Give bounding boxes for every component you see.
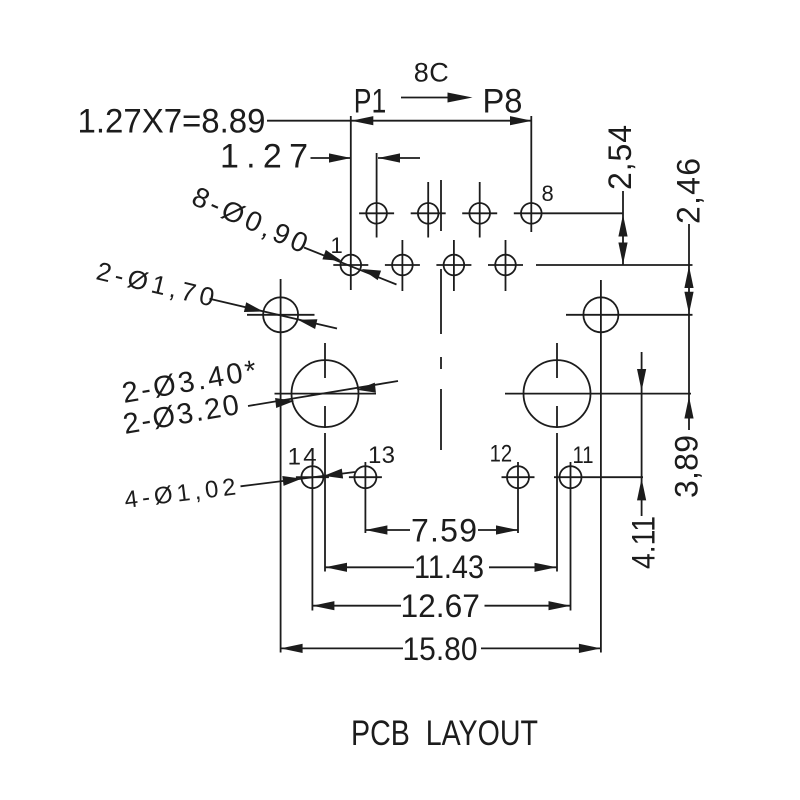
svg-text:12.67: 12.67 <box>401 588 480 624</box>
wire row2 centerline extension right <box>536 264 693 266</box>
boss hole left (Ø3.40/3.20) <box>275 343 377 572</box>
svg-text:11.43: 11.43 <box>414 549 484 585</box>
leader label 2-Ø1,70 <box>94 256 337 329</box>
pin hole P4 (Ø0.90) <box>411 182 446 238</box>
dimension 11.43 <box>325 549 557 585</box>
svg-text:8: 8 <box>542 181 554 206</box>
pin hole P8 (Ø0.90) <box>514 116 623 232</box>
svg-text:4.11: 4.11 <box>626 516 662 569</box>
svg-text:P1: P1 <box>354 82 387 120</box>
svg-text:8-Ø0,90: 8-Ø0,90 <box>188 181 313 259</box>
pin hole P2 (Ø0.90) <box>359 153 394 238</box>
svg-text:1.27X7=8.89: 1.27X7=8.89 <box>78 103 266 141</box>
svg-text:14: 14 <box>288 444 317 471</box>
svg-text:PCB LAYOUT: PCB LAYOUT <box>351 714 538 753</box>
dimension 2,54 <box>602 125 638 265</box>
svg-text:12: 12 <box>490 441 512 468</box>
leader label 2-Ø3,20 <box>121 381 398 441</box>
svg-text:1.27: 1.27 <box>220 138 308 176</box>
dimension 1.27X7=8.89 <box>78 103 533 141</box>
svg-text:7.59: 7.59 <box>411 513 477 549</box>
arrow P1 to P8 <box>401 93 473 103</box>
svg-text:4-Ø1,02: 4-Ø1,02 <box>123 474 237 514</box>
dimension 1.27 <box>220 138 420 176</box>
svg-text:8C: 8C <box>414 57 449 87</box>
pin hole P1 (Ø0.90) <box>333 116 368 290</box>
svg-text:2-Ø1,70: 2-Ø1,70 <box>94 256 218 313</box>
dimension 12.67 <box>312 588 570 624</box>
mounting hole right (Ø1.70) <box>566 280 693 653</box>
leader label 8-Ø0,90 <box>188 181 397 285</box>
svg-text:P8: P8 <box>483 82 523 120</box>
svg-text:11: 11 <box>573 442 594 469</box>
pin hole P5 (Ø0.90) <box>436 240 471 291</box>
svg-text:2,54: 2,54 <box>602 125 638 190</box>
boss hole right (Ø3.40/3.20) <box>505 343 691 572</box>
svg-text:2,46: 2,46 <box>671 158 707 224</box>
svg-text:1: 1 <box>331 233 343 258</box>
shield hole 11 (Ø1.02) <box>554 462 643 611</box>
dimension 7.59 <box>365 513 518 549</box>
mounting hole left (Ø1.70) <box>247 279 315 653</box>
pin hole P7 (Ø0.90) <box>488 240 523 291</box>
pin hole P6 (Ø0.90) <box>462 182 497 238</box>
leader label 4-Ø1,02 <box>123 469 355 514</box>
dimension 15.80 <box>281 631 601 667</box>
svg-text:13: 13 <box>368 442 395 469</box>
svg-text:3,89: 3,89 <box>669 435 705 498</box>
shield hole 14 (Ø1.02) <box>296 462 329 611</box>
dimension 4.11 <box>626 352 662 569</box>
pin hole P3 (Ø0.90) <box>385 240 420 291</box>
dimension 3,89 <box>669 397 705 499</box>
center dashed line <box>440 180 442 450</box>
shield hole 12 (Ø1.02) <box>502 462 535 533</box>
svg-text:15.80: 15.80 <box>403 631 478 667</box>
dimension 2,46 <box>671 158 707 430</box>
shield hole 13 (Ø1.02) <box>349 462 382 533</box>
